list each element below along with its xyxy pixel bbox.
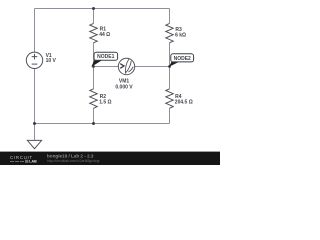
- watermark logo CIRCUIT LAB: [10, 155, 37, 163]
- svg-text:NODE2: NODE2: [174, 56, 191, 62]
- junction dot bottom-middle: [92, 122, 95, 125]
- voltmeter VM1: [115, 58, 134, 90]
- junction dot node1: [92, 65, 95, 68]
- wire voltmeter leads: [94, 66, 170, 68]
- svg-text:6 kΩ: 6 kΩ: [175, 32, 186, 38]
- junction dot bottom-left: [33, 122, 36, 125]
- junction dot node2: [168, 65, 171, 68]
- wire middle branch: [93, 9, 95, 124]
- svg-text:44 Ω: 44 Ω: [99, 32, 110, 38]
- node NODE2 flag: [169, 54, 194, 67]
- resistor R2: [90, 89, 112, 109]
- junction dot top: [92, 7, 95, 10]
- svg-text:10 V: 10 V: [46, 58, 57, 64]
- wire bottom rail: [35, 123, 170, 125]
- wire top rail: [35, 8, 170, 10]
- wire ground lead: [34, 124, 36, 141]
- svg-text:NODE1: NODE1: [97, 54, 114, 60]
- wire left rail: [34, 9, 36, 124]
- svg-text:0.000 V: 0.000 V: [115, 85, 133, 91]
- resistor R3: [166, 23, 186, 42]
- node NODE1 flag: [91, 52, 117, 67]
- wire right branch: [169, 9, 171, 124]
- watermark bar: [0, 152, 220, 165]
- watermark text: [47, 153, 100, 162]
- voltage source V1: [26, 52, 56, 68]
- ground: [27, 140, 41, 148]
- svg-text:bongie19 / Lab 2 - 2.3: bongie19 / Lab 2 - 2.3: [47, 153, 94, 158]
- resistor R1: [90, 23, 110, 42]
- resistor R4: [166, 89, 193, 109]
- svg-text:LAB: LAB: [29, 160, 37, 164]
- svg-text:http://circuitlab.com/c/2ar8t3: http://circuitlab.com/c/2ar8t3gvdcgr: [47, 159, 100, 163]
- svg-text:204.5 Ω: 204.5 Ω: [175, 100, 193, 106]
- svg-text:1.5 Ω: 1.5 Ω: [99, 100, 111, 106]
